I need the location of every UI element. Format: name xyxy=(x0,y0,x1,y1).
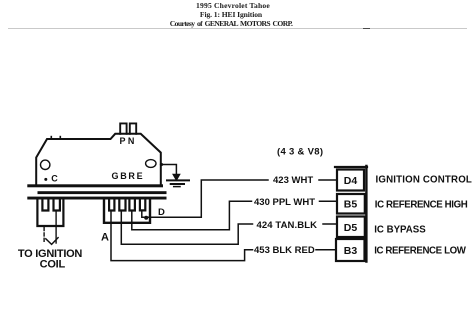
connector cell B5 xyxy=(337,194,365,214)
svg-text:IGNITION CONTROL: IGNITION CONTROL xyxy=(376,175,473,186)
wire stub 424 to D5 xyxy=(323,223,337,225)
connector cell D4 xyxy=(337,170,364,191)
svg-text:A: A xyxy=(101,231,109,243)
solid lead from pin 2 xyxy=(55,211,57,243)
svg-text:IC REFERENCE LOW: IC REFERENCE LOW xyxy=(374,245,467,256)
right connector pin G xyxy=(109,201,114,211)
junction dot on wire 423 xyxy=(144,216,148,220)
svg-text:B5: B5 xyxy=(344,199,358,211)
module top tick marks xyxy=(51,137,60,139)
svg-text:423 WHT: 423 WHT xyxy=(273,175,313,186)
dashed lead to ignition coil xyxy=(43,228,45,243)
ignition module body xyxy=(36,134,161,185)
junction dot at module edge xyxy=(160,163,163,166)
module flange bar 2 xyxy=(38,191,167,194)
connector cell D5 xyxy=(337,217,365,238)
right connector pin E xyxy=(140,201,145,211)
right connector pin B xyxy=(119,201,125,211)
title line 3 xyxy=(0,19,468,28)
left connector pin 1 xyxy=(42,201,48,211)
ground wire xyxy=(162,165,177,175)
svg-text:D5: D5 xyxy=(344,222,358,234)
svg-text:453 BLK RED: 453 BLK RED xyxy=(254,245,315,256)
wire stub 453 to B3 xyxy=(316,249,336,251)
svg-text:COIL: COIL xyxy=(40,258,66,270)
title line 2 xyxy=(0,10,468,19)
svg-text:P N: P N xyxy=(120,136,135,146)
horizontal rule xyxy=(8,28,467,29)
wire 453 BLK RED from pin G xyxy=(111,211,253,261)
right connector pin R xyxy=(129,201,135,211)
wire stub 430 to B5 xyxy=(320,200,338,202)
wire 430 PPL WHT from pin R xyxy=(132,201,252,230)
wire 424 TAN-BLK from pin B xyxy=(121,211,252,244)
module flange bar 3 xyxy=(27,197,166,200)
connector top edge xyxy=(335,166,367,168)
svg-text:(4 3 & V8): (4 3 & V8) xyxy=(277,147,323,158)
svg-text:GBRE: GBRE xyxy=(112,171,145,181)
connector cell B3 xyxy=(336,239,365,261)
mounting hole right xyxy=(146,160,156,168)
connector right edge xyxy=(365,166,367,262)
module flange bar 1 xyxy=(27,184,163,187)
right connector shell xyxy=(104,201,150,223)
pin dot at C xyxy=(44,178,47,181)
ground symbol xyxy=(167,174,189,186)
arrowhead to ignition coil xyxy=(46,238,58,245)
terminal pin P xyxy=(120,123,126,133)
rule dash mark xyxy=(363,28,370,30)
left connector shell xyxy=(37,201,63,226)
terminal pin N xyxy=(130,123,136,133)
mounting hole left xyxy=(41,160,50,169)
svg-text:C: C xyxy=(51,173,58,183)
left connector pin 2 xyxy=(54,201,60,211)
svg-text:IC REFERENCE HIGH: IC REFERENCE HIGH xyxy=(375,200,468,211)
svg-text:424 TAN.BLK: 424 TAN.BLK xyxy=(257,220,318,231)
wire stub 423 to D4 xyxy=(319,179,337,181)
svg-text:D4: D4 xyxy=(344,175,358,187)
svg-text:430 PPL WHT: 430 PPL WHT xyxy=(254,197,315,208)
wire 423 WHT from pin E xyxy=(142,180,268,217)
svg-text:B3: B3 xyxy=(344,245,358,257)
svg-text:IC BYPASS: IC BYPASS xyxy=(374,225,426,236)
title line 1 xyxy=(0,1,470,10)
